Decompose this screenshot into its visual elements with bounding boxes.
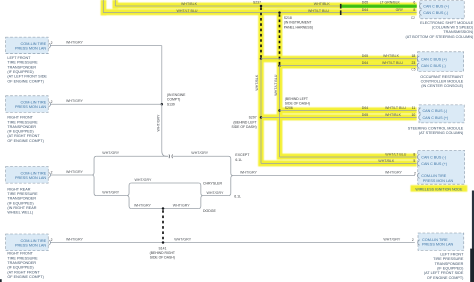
svg-text:PRESS MON LAN: PRESS MON LAN — [422, 243, 453, 247]
svg-text:WHT/GRY: WHT/GRY — [66, 170, 84, 174]
svg-text:TRANSPONDER: TRANSPONDER — [7, 261, 36, 265]
node junction WHT/LT BLU to occupant restraint row — [278, 64, 281, 67]
svg-text:WHT/LT BLU: WHT/LT BLU — [177, 9, 198, 13]
svg-text:(IF EQUIPPED): (IF EQUIPPED) — [7, 70, 34, 74]
svg-text:23: 23 — [412, 61, 416, 65]
svg-text:TRANSPONDER: TRANSPONDER — [7, 125, 36, 129]
svg-text:8: 8 — [413, 8, 415, 12]
svg-text:(IN RIGHT REAR: (IN RIGHT REAR — [7, 206, 36, 210]
svg-text:WHT/GRY: WHT/GRY — [102, 190, 120, 194]
svg-text:COM-LIN TIRE: COM-LIN TIRE — [21, 239, 47, 243]
svg-text:GRY: GRY — [396, 8, 404, 12]
svg-text:WHT/LT BLU: WHT/LT BLU — [385, 106, 406, 110]
wire WHT/BLK bus row 1 — [115, 5, 341, 7]
svg-text:WHEEL WELL): WHEEL WELL) — [7, 211, 33, 215]
svg-text:D64: D64 — [362, 8, 368, 12]
svg-text:10: 10 — [412, 113, 416, 117]
node junction Dodge branch to S141 drop — [162, 207, 165, 210]
wire WHT/GRY upper branch to merge brace — [96, 155, 168, 157]
svg-text:WHT/GRY: WHT/GRY — [66, 99, 84, 103]
svg-text:OF ENGINE COMPT): OF ENGINE COMPT) — [7, 275, 44, 279]
svg-text:TRANSMISSION): TRANSMISSION) — [443, 30, 474, 34]
svg-text:(IN CENTER CONSOLE): (IN CENTER CONSOLE) — [421, 84, 464, 88]
svg-text:TIRE PRESSURE: TIRE PRESSURE — [7, 192, 38, 196]
wire WHT/GRY from RR transponder — [50, 174, 92, 176]
svg-text:PRESS MON LAN: PRESS MON LAN — [15, 243, 46, 247]
svg-text:(AT STEERING COLUMN): (AT STEERING COLUMN) — [419, 131, 464, 135]
svg-text:COM-LIN TIRE: COM-LIN TIRE — [421, 174, 446, 178]
wire WHT/GRY from RF transponder to S139 — [50, 103, 162, 105]
svg-text:WHT/GRY: WHT/GRY — [102, 151, 120, 155]
wire WHT/BLK bus entry vertical — [114, 0, 116, 6]
svg-text:WHT/BLK: WHT/BLK — [385, 113, 402, 117]
svg-text:CAN C BUS (-): CAN C BUS (-) — [421, 64, 446, 68]
svg-text:WHT/GRY: WHT/GRY — [383, 237, 401, 241]
svg-text:(AT RIGHT FRONT: (AT RIGHT FRONT — [7, 134, 40, 138]
module wireless ignition node box — [418, 150, 465, 184]
svg-text:PRESS MON LAN: PRESS MON LAN — [15, 46, 46, 50]
svg-text:CHRYSLER: CHRYSLER — [203, 182, 222, 186]
svg-text:(IF EQUIPPED): (IF EQUIPPED) — [7, 130, 34, 134]
svg-text:S218: S218 — [284, 16, 292, 20]
wire WHT/GRY to WIN pin 2 — [233, 175, 415, 177]
svg-text:WHT/GRY: WHT/GRY — [207, 191, 225, 195]
svg-text:WHT/BLK: WHT/BLK — [181, 2, 198, 6]
svg-text:LEFT FRONT: LEFT FRONT — [7, 56, 31, 60]
wire WHT/LT BLU to WIN pin 8 — [280, 156, 417, 158]
svg-text:(IF EQUIPPED): (IF EQUIPPED) — [7, 201, 34, 205]
svg-text:TIRE PRESSURE: TIRE PRESSURE — [7, 120, 38, 124]
svg-text:S141: S141 — [159, 246, 167, 250]
brace merge Chrysler/Dodge — [199, 183, 203, 209]
svg-text:WHT/GRY: WHT/GRY — [66, 237, 84, 241]
svg-text:WHT/BLK: WHT/BLK — [378, 159, 395, 163]
wire WHT/BLK to SCM pin 10 — [261, 116, 417, 118]
node junction WHT/BLK to occupant restraint row — [260, 58, 263, 61]
wire WHT/LT BLU to SCM pin 11 — [280, 110, 417, 112]
svg-text:CAN C BUS (-): CAN C BUS (-) — [423, 11, 448, 15]
scan artifact right edge bar — [472, 191, 474, 282]
svg-text:(IN INSTRUMENT: (IN INSTRUMENT — [284, 21, 312, 25]
svg-text:SIDE OF DASH): SIDE OF DASH) — [232, 125, 257, 129]
svg-text:D65: D65 — [362, 113, 368, 117]
svg-text:COM-LIN TIRE: COM-LIN TIRE — [422, 238, 448, 242]
svg-text:COM-LIN TIRE: COM-LIN TIRE — [21, 101, 47, 105]
svg-text:WHT/BLK: WHT/BLK — [383, 54, 400, 58]
svg-text:PRESS MON LAN: PRESS MON LAN — [15, 105, 46, 109]
splice tick D65 colour change — [340, 4, 342, 9]
wire WHT/BLK to WIN pin 5 — [261, 162, 417, 164]
svg-text:STEERING CONTROL MODULE: STEERING CONTROL MODULE — [408, 127, 464, 131]
svg-text:CAN C BUS (+): CAN C BUS (+) — [421, 57, 447, 61]
svg-text:WHT/GRY: WHT/GRY — [385, 171, 403, 175]
svg-text:CAN C BUS (-): CAN C BUS (-) — [423, 109, 448, 113]
svg-text:WHT/GRY: WHT/GRY — [66, 40, 84, 44]
module electronic shift module box — [420, 1, 464, 19]
scan artifact bottom-left corner — [0, 279, 2, 282]
svg-text:(BEHIND RIGHT: (BEHIND RIGHT — [150, 251, 175, 255]
wire dashed drop to S141 — [162, 210, 164, 241]
brace merge EXCEPT 6.1L / 6.1L — [229, 156, 233, 195]
svg-text:WHT/LT BLU: WHT/LT BLU — [274, 74, 278, 95]
svg-text:CAN C BUS (+): CAN C BUS (+) — [423, 116, 449, 120]
svg-text:COM-LIN TIRE: COM-LIN TIRE — [21, 42, 47, 46]
svg-text:6.1L: 6.1L — [234, 194, 241, 198]
svg-text:S139: S139 — [167, 102, 175, 106]
svg-text:TIRE PRESSURE: TIRE PRESSURE — [7, 256, 38, 260]
svg-text:WHT/GRY: WHT/GRY — [135, 178, 153, 182]
wire WHT/GRY S139 down to connector C2 — [161, 104, 163, 151]
wire LT GRN/BLK to electronic shift module pin 6 — [341, 5, 417, 8]
wire WHT/LT BLU vertical run — [279, 66, 281, 157]
svg-text:2: 2 — [51, 171, 53, 175]
svg-text:2: 2 — [51, 100, 53, 104]
svg-text:(COLUMN W/ 5 SPEED): (COLUMN W/ 5 SPEED) — [432, 26, 474, 30]
svg-text:6: 6 — [413, 1, 415, 5]
splice S218 — [278, 11, 281, 14]
svg-text:PRESS MON LAN: PRESS MON LAN — [15, 176, 46, 180]
svg-text:WHT/GRY: WHT/GRY — [134, 203, 152, 207]
splice S237 — [260, 5, 263, 8]
wire WHT/BLK vertical run — [260, 59, 262, 164]
svg-text:(IF EQUIPPED): (IF EQUIPPED) — [7, 266, 34, 270]
svg-text:S297: S297 — [249, 116, 257, 120]
wire WHT/GRY from LF transponder — [50, 45, 162, 47]
svg-text:2: 2 — [51, 41, 53, 45]
svg-text:2: 2 — [414, 172, 416, 176]
svg-text:DODGE: DODGE — [203, 209, 217, 213]
svg-text:OF ENGINE COMPT): OF ENGINE COMPT) — [427, 276, 464, 280]
svg-text:WHT/BLK: WHT/BLK — [314, 2, 331, 6]
svg-text:TIRE PRESSURE: TIRE PRESSURE — [7, 61, 38, 65]
svg-text:OCCUPANT RESTRAINT: OCCUPANT RESTRAINT — [420, 75, 464, 79]
svg-text:(IF EQUIPPED): (IF EQUIPPED) — [437, 266, 464, 270]
svg-text:WHT/GRY: WHT/GRY — [191, 151, 209, 155]
wire WHT/LT BLU bus entry vertical — [102, 0, 104, 13]
svg-text:D64: D64 — [362, 61, 368, 65]
svg-text:CAN C BUS (-): CAN C BUS (-) — [421, 156, 446, 160]
svg-text:CAN C BUS (+): CAN C BUS (+) — [423, 5, 449, 9]
svg-text:WIRELESS IGNITION NODE: WIRELESS IGNITION NODE — [415, 187, 463, 191]
brace split RR transponder wire — [92, 156, 96, 195]
svg-text:S237: S237 — [253, 1, 261, 5]
svg-text:SIDE OF DASH): SIDE OF DASH) — [285, 102, 310, 106]
svg-text:WHT/GRY: WHT/GRY — [173, 203, 191, 207]
component right front tire pressure transponder (lower): COM-LIN TIRE PRESS MON LAN box — [6, 234, 49, 251]
brace split Chrysler/Dodge — [127, 183, 131, 209]
svg-text:ELECTRONIC SHIFT MODULE: ELECTRONIC SHIFT MODULE — [420, 21, 474, 25]
svg-text:D65: D65 — [362, 54, 368, 58]
svg-text:S206: S206 — [285, 106, 293, 110]
svg-text:OF ENGINE COMPT): OF ENGINE COMPT) — [7, 79, 44, 83]
wire WHT/GRY Dodge branch — [131, 208, 199, 210]
svg-text:(AT LEFT FRONT SIDE: (AT LEFT FRONT SIDE — [7, 75, 47, 79]
svg-text:6.1L: 6.1L — [235, 158, 242, 162]
svg-text:PRESS MON LAN: PRESS MON LAN — [423, 179, 454, 183]
svg-text:WHT/GRY: WHT/GRY — [174, 237, 192, 241]
svg-text:TRANSPONDER: TRANSPONDER — [435, 262, 464, 266]
wire WHT/LT BLU to ORC pin 23 — [280, 65, 417, 67]
svg-text:COM-LIN TIRE: COM-LIN TIRE — [21, 171, 47, 175]
svg-text:WHT/LT BLU: WHT/LT BLU — [308, 9, 329, 13]
splice S141 — [162, 241, 165, 244]
svg-text:(AT BOTTOM OF STEERING COLUMN): (AT BOTTOM OF STEERING COLUMN) — [405, 35, 473, 39]
svg-text:11: 11 — [412, 106, 416, 110]
svg-text:C2: C2 — [411, 16, 415, 20]
wire dashed drop from S237 (WHT/BLK) — [260, 7, 262, 57]
svg-text:(IN ENGINE: (IN ENGINE — [167, 93, 186, 97]
svg-text:WHT/LT BLU: WHT/LT BLU — [385, 153, 406, 157]
svg-text:C5: C5 — [411, 67, 415, 71]
highlight: CAN bus yellow overlay — [101, 0, 468, 192]
svg-text:EXCEPT: EXCEPT — [235, 153, 250, 157]
component left front tire pressure transponder (right column) box — [418, 233, 464, 250]
svg-text:CAN C BUS (+): CAN C BUS (+) — [421, 162, 447, 166]
svg-text:RIGHT FRONT: RIGHT FRONT — [7, 252, 33, 256]
connector C2 inline — [162, 151, 168, 156]
svg-text:LEFT FRONT: LEFT FRONT — [440, 253, 464, 257]
svg-text:D64: D64 — [362, 106, 368, 110]
svg-text:2: 2 — [412, 238, 414, 242]
wire WHT/GRY bottom LAN run — [50, 242, 415, 244]
svg-text:RIGHT REAR: RIGHT REAR — [7, 187, 30, 191]
svg-text:(BEHIND LEFT: (BEHIND LEFT — [285, 97, 308, 101]
svg-text:WHT/LT BLU: WHT/LT BLU — [382, 61, 403, 65]
svg-text:TRANSPONDER: TRANSPONDER — [7, 65, 36, 69]
svg-text:OF ENGINE COMPT): OF ENGINE COMPT) — [7, 139, 44, 143]
svg-text:RIGHT FRONT: RIGHT FRONT — [7, 116, 33, 120]
svg-text:COMPT): COMPT) — [167, 98, 180, 102]
wire dashed drop from S218 (WHT/LT BLU) — [279, 14, 281, 64]
module steering control module box — [419, 105, 464, 123]
svg-text:TIRE PRESSURE: TIRE PRESSURE — [433, 257, 464, 261]
splice tick D64 colour change — [340, 10, 342, 15]
svg-text:(AT LEFT FRONT SIDE: (AT LEFT FRONT SIDE — [424, 271, 464, 275]
svg-text:SIDE OF DASH): SIDE OF DASH) — [150, 256, 175, 260]
svg-text:5: 5 — [413, 159, 415, 163]
svg-text:D65: D65 — [362, 1, 368, 5]
splice S139 — [161, 103, 164, 106]
module occupant restraint controller box — [418, 52, 464, 72]
svg-text:18: 18 — [412, 54, 416, 58]
wire WHT/BLK to ORC pin 18 — [261, 58, 417, 60]
svg-text:(AT RIGHT FRONT: (AT RIGHT FRONT — [7, 270, 40, 274]
svg-text:PANEL HARNESS): PANEL HARNESS) — [284, 25, 313, 29]
svg-text:WHT/BLK: WHT/BLK — [255, 74, 259, 91]
splice S206 — [278, 109, 281, 112]
svg-text:8: 8 — [413, 153, 415, 157]
svg-text:CONTROLLER MODULE: CONTROLLER MODULE — [421, 80, 464, 84]
svg-text:WHT/GRY: WHT/GRY — [240, 171, 258, 175]
wire WHT/LT BLU bus row 2 — [103, 12, 416, 14]
svg-text:2: 2 — [51, 238, 53, 242]
wire WHT/GRY merged variant wire — [203, 195, 229, 197]
svg-text:WHT/GRY: WHT/GRY — [157, 114, 161, 132]
wire WHT/GRY lower branch — [96, 195, 127, 197]
component right front tire pressure transponder: COM-LIN TIRE PRESS MON LAN box — [6, 96, 49, 113]
svg-text:TRANSPONDER: TRANSPONDER — [7, 197, 36, 201]
svg-text:(BEHIND LEFT: (BEHIND LEFT — [233, 120, 256, 124]
component right rear tire pressure transponder: COM-LIN TIRE PRESS MON LAN box — [6, 167, 49, 184]
splice S297 — [260, 116, 263, 119]
component left front tire pressure transponder: COM-LIN TIRE PRESS MON LAN box — [6, 37, 49, 54]
svg-text:LT GRN/BLK: LT GRN/BLK — [380, 1, 401, 5]
wire WHT/GRY Chrysler branch — [131, 182, 199, 184]
